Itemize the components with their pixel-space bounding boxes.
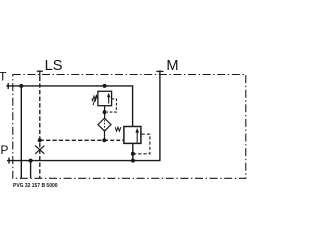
node LS branch junction (38, 138, 42, 142)
svg-text:T: T (0, 69, 7, 83)
node V2 outlet on P rail (131, 159, 135, 163)
wire LS pilot line (dashed vertical) (39, 77, 41, 178)
wire V1 pilot (dashed loop to outlet) (107, 99, 116, 112)
port T tick (7, 83, 9, 89)
wire T rail (to valve V2 inlet) (6, 86, 132, 127)
relief valve V1 body (98, 91, 112, 105)
valve V1 flow arrow (107, 93, 110, 104)
node P-drain junction (29, 159, 33, 163)
enclosure boundary (dash-dot subplate frame) (13, 75, 246, 179)
valve V2 spring (115, 127, 121, 131)
wire P rail (7, 160, 161, 162)
wire P drain down to boundary (30, 161, 32, 178)
valve V1 adjustable spring (92, 95, 98, 106)
orifice X (plug) (35, 146, 44, 154)
port LS tick (37, 70, 43, 72)
filter F1 (diamond) (98, 118, 111, 131)
relief valve V2 body (124, 127, 141, 144)
svg-text:LS: LS (45, 58, 63, 74)
wire M line down to P rail (159, 70, 161, 160)
filter F1 element (dotted) (104, 120, 106, 130)
node V1 inlet junction (103, 84, 107, 88)
wire filter to LS branch (104, 131, 106, 140)
wire LS branch (dashed horizontal to filter node) (40, 139, 105, 141)
node T-drain junction (19, 84, 23, 88)
wire V1 outlet to filter (104, 106, 106, 119)
wire V2 pilot (dashed loop) (133, 134, 150, 154)
valve V2 flow arrow (135, 128, 139, 143)
wire V2 outlet to P rail (132, 143, 134, 160)
wire T drain down to boundary (20, 86, 22, 178)
node V1 outlet junction (103, 110, 107, 114)
node V2 pilot tap (131, 152, 135, 156)
port M tick (156, 70, 163, 72)
svg-text:PVG 32 157 B 5000: PVG 32 157 B 5000 (13, 183, 58, 189)
node filter-LS junction (102, 138, 106, 142)
svg-text:M: M (166, 58, 178, 74)
wire LS port stub (39, 70, 41, 76)
port P tick (8, 158, 10, 164)
svg-text:P: P (0, 143, 8, 157)
wire LS pilot to valve V2 spring side (dashed) (104, 139, 124, 141)
